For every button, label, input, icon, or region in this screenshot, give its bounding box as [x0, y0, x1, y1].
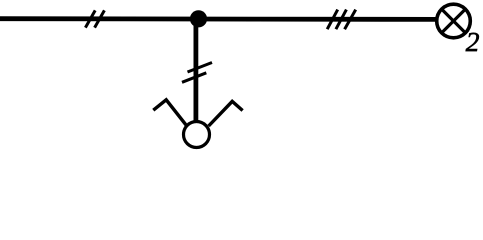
switch S1 lever left: [153, 100, 186, 125]
lamp E1: outlet circle with cross: [437, 4, 471, 38]
label: lamp subscript 2: [466, 33, 479, 51]
switch S1 lever right: [209, 101, 243, 126]
wire W1: horizontal feed line: [0, 16, 437, 21]
conductor marks: 2-wire hash on left segment: [85, 10, 104, 27]
junction dot: node A: [190, 10, 207, 27]
conductor marks: 3-wire hash on right segment: [327, 10, 356, 30]
switch S1: two-way series switch body: [184, 122, 210, 148]
conductor marks: 2-wire hash on vertical drop: [182, 63, 212, 83]
wire W2: vertical drop to switch: [193, 19, 198, 121]
